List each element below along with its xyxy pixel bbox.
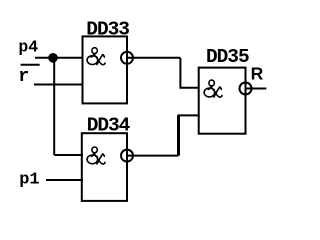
- gate DD35 ampersand: [204, 80, 222, 97]
- svg-text:r: r: [18, 66, 29, 87]
- gate DD33 box: [83, 36, 128, 103]
- svg-text:p4: p4: [18, 37, 38, 56]
- gate DD33 output bubble: [121, 52, 133, 64]
- gate DD33 ampersand: [87, 48, 105, 65]
- wire p4 input: [35, 57, 83, 59]
- gate DD35 output bubble: [240, 83, 252, 95]
- wire DD33 output: [127, 57, 180, 59]
- wire DD33 to DD35 vertical: [179, 58, 181, 88]
- wire DD34 output: [127, 155, 179, 157]
- wire p1 input: [46, 179, 83, 181]
- gate DD34 ampersand: [87, 147, 105, 164]
- gate DD35 box: [199, 68, 246, 134]
- wire p4 branch into DD34: [54, 154, 83, 156]
- gate DD34 box: [82, 133, 127, 201]
- wire DD35 output R: [246, 88, 267, 90]
- gate DD34 output bubble: [121, 150, 133, 162]
- wire p4 branch vertical: [53, 58, 55, 155]
- overline of r: [21, 64, 40, 66]
- junction dot on p4 wire: [48, 53, 58, 63]
- wire DD35 upper input: [179, 87, 199, 89]
- wire DD34 to DD35 vertical: [177, 115, 180, 155]
- wire r input: [34, 84, 83, 86]
- svg-text:DD35: DD35: [206, 46, 249, 68]
- wire DD35 lower input: [178, 114, 200, 116]
- svg-text:R: R: [251, 64, 264, 84]
- svg-text:p1: p1: [19, 170, 39, 189]
